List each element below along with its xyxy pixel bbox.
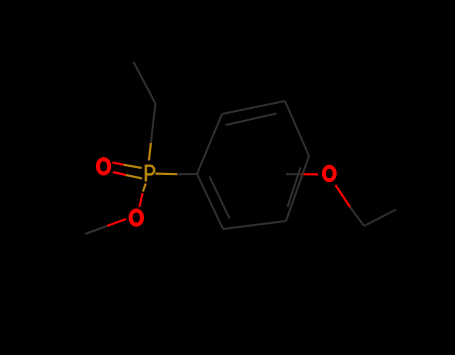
- wire benzene inner double-bond line top: [226, 114, 277, 126]
- wire benzene ring edge E-F: [223, 221, 286, 229]
- wire ethyl CH2-CH3 bond: [364, 210, 396, 227]
- wire P-to-methylchain bond (P half, yellow): [149, 143, 151, 161]
- wire ether O-CH2 bond (C half): [350, 207, 364, 226]
- wire P=O double bond lower line (O half, red): [113, 172, 126, 175]
- wire aryl-O ether bond (C half): [286, 173, 301, 175]
- atom O (P=O oxygen): [98, 159, 109, 173]
- wire P-O ester bond (P half, yellow): [143, 184, 146, 192]
- wire benzene inner double-bond line left: [210, 177, 230, 219]
- wire aryl-O ether bond (O half, red): [301, 173, 318, 175]
- wire P=O double bond lower line (P half, yellow): [126, 175, 142, 178]
- wire ester O-CH3 bond (O half, red): [107, 219, 126, 226]
- wire benzene ring edge A-B: [197, 114, 222, 174]
- wire benzene ring edge F-A: [197, 174, 223, 229]
- atom O (ether oxygen): [324, 167, 335, 181]
- wire P-to-ring bond (P half, yellow): [155, 173, 177, 176]
- wire ether O-CH2 bond (O half, red): [336, 185, 351, 207]
- wire ester O-CH3 bond (C half): [85, 226, 107, 234]
- wire P-O ester bond (O half, red): [140, 193, 143, 207]
- atom P (phosphorus): [146, 166, 154, 182]
- wire chain CH2-CH3 bond: [134, 62, 156, 104]
- wire benzene inner double-bond line right: [288, 168, 301, 208]
- wire benzene ring edge B-C: [222, 101, 285, 114]
- wire P-to-ring bond (C half): [177, 173, 197, 175]
- wire benzene ring edge C-D: [285, 101, 309, 156]
- wire P-CH2 bond (C half): [151, 104, 156, 144]
- wire P=O double bond upper line (O half, red): [112, 162, 123, 164]
- atom O (ester oxygen): [131, 210, 142, 224]
- wire benzene ring edge D-E: [286, 156, 309, 221]
- wire P=O double bond upper line (P half, yellow): [123, 165, 141, 168]
